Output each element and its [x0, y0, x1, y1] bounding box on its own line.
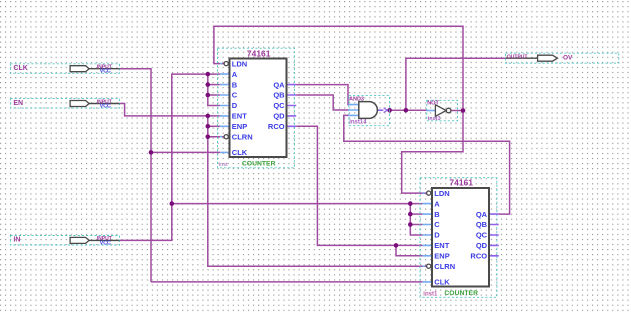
junction IN/B1 [206, 82, 211, 87]
wire RCO1 net: branch ENT2 to ENP2 [396, 245, 422, 255]
chip1 body [230, 59, 287, 158]
svg-text:B: B [232, 80, 238, 89]
wire AND output net: up to OUTPUT pin [406, 58, 506, 110]
input pin EN [10, 99, 119, 110]
wire IN net: chip2 data column A-D [410, 204, 422, 235]
counter U1: 74161 inst [218, 48, 297, 168]
svg-text:A: A [434, 199, 440, 208]
svg-text:OUTPUT: OUTPUT [507, 54, 528, 60]
svg-text:B: B [434, 210, 440, 219]
svg-text:D: D [232, 101, 238, 110]
svg-text:CLK: CLK [434, 278, 450, 287]
svg-text:CLK: CLK [13, 65, 27, 72]
counter U2: 74161 inst1 [420, 177, 499, 297]
svg-text:LDN: LDN [434, 189, 449, 198]
wire EN net: pin EN to chip1 ENT [120, 104, 220, 116]
junction IN/B2 [408, 212, 413, 217]
chip1 LDN bubble [224, 62, 228, 66]
svg-text:QB: QB [273, 91, 285, 100]
and gate AND3 inst14 [348, 96, 389, 126]
svg-text:QD: QD [273, 112, 285, 121]
wire CLK net: bottom run to chip2 CLK [151, 281, 422, 283]
svg-text:74161: 74161 [449, 177, 473, 187]
wire NOT output net: to LDN trunk [451, 110, 463, 112]
svg-text:RCO: RCO [268, 122, 285, 131]
svg-text:inst: inst [219, 162, 228, 168]
chip2 LDN bubble [427, 191, 431, 195]
wire CLK net: branch to chip1 CLK [151, 151, 220, 153]
wire RCO1 net: RCO1 down to chip2 ENT [296, 126, 422, 245]
chip2 body [432, 188, 489, 287]
svg-text:CLRN: CLRN [434, 262, 455, 271]
wire IN net: branch to B2 [410, 213, 422, 215]
svg-text:AND3: AND3 [349, 97, 364, 103]
junction IN/A2 [408, 201, 413, 206]
svg-text:QB: QB [476, 220, 488, 229]
input pin CLK [10, 64, 119, 75]
svg-text:C: C [434, 220, 440, 229]
output pin OV [506, 53, 619, 63]
junction IN trunk/A2 run [170, 201, 175, 206]
junction EN/ENT1 [206, 114, 211, 119]
svg-text:74161: 74161 [247, 48, 271, 58]
svg-text:INPUT: INPUT [97, 65, 112, 71]
svg-text:A: A [232, 70, 238, 79]
wire IN net: run to chip2 A [172, 203, 423, 205]
wire IN net: branch to B1 [208, 84, 220, 86]
svg-text:IN: IN [13, 237, 20, 244]
svg-text:QA: QA [273, 80, 285, 89]
junction NOT output/LDN trunk [461, 108, 466, 113]
junction IN/C2 [408, 222, 413, 227]
input pin IN [10, 236, 119, 247]
svg-text:ENT: ENT [434, 241, 449, 250]
svg-text:COUNTER: COUNTER [444, 290, 478, 297]
svg-text:QC: QC [476, 231, 488, 240]
junction IN/C1 [206, 93, 211, 98]
wire QA1 net: QA1 to AND input 1 [296, 85, 348, 105]
svg-text:ENT: ENT [232, 112, 247, 121]
svg-text:INPUT: INPUT [97, 99, 112, 105]
svg-text:D: D [434, 231, 440, 240]
svg-text:ENP: ENP [434, 252, 449, 261]
junction EN/CLRN1 [206, 134, 211, 139]
junction EN/ENP1 [206, 124, 211, 129]
wire IN net: branch to C1 [208, 94, 220, 96]
svg-text:INPUT: INPUT [97, 236, 112, 242]
svg-text:NOT: NOT [427, 101, 439, 107]
wire IN net: branch to C2 [410, 224, 422, 226]
svg-text:CLK: CLK [232, 148, 248, 157]
wire LDN net: LDN1 over the top to right trunk [214, 26, 463, 193]
wire QB1 net: QB1 to AND input 2 [296, 95, 348, 110]
svg-text:RCO: RCO [470, 252, 487, 261]
svg-text:LDN: LDN [232, 59, 247, 68]
junction AND output/OUTPUT branch [404, 108, 409, 113]
junction AND output [387, 108, 392, 113]
svg-text:OV: OV [563, 54, 573, 61]
svg-text:QC: QC [273, 101, 285, 110]
wire CLK net: pin CLK to vertical trunk [120, 69, 152, 282]
not gate NOT inst3 [427, 100, 458, 122]
svg-text:COUNTER: COUNTER [242, 160, 276, 167]
wire EN net: branch to CLRN1 [208, 136, 224, 138]
wire EN net: branch to ENP1 [208, 125, 220, 127]
wire IN net: chip1 data column A-D [208, 74, 220, 105]
wire AND output net: to NOT input [390, 109, 427, 111]
svg-text:inst1: inst1 [423, 291, 438, 297]
svg-text:EN: EN [13, 100, 23, 107]
svg-text:QA: QA [476, 210, 488, 219]
svg-text:CLRN: CLRN [232, 132, 253, 141]
svg-text:QD: QD [476, 241, 488, 250]
wire IN net: pin IN up to A-row [120, 74, 220, 240]
junction CLK/chip1 [149, 150, 154, 155]
chip1 CLRN bubble [224, 135, 228, 139]
wire EN net: vertical trunk to CLRN2 [208, 116, 427, 266]
stubs right chip2 [489, 214, 499, 256]
stubs left chip1 [220, 64, 230, 153]
svg-text:inst14: inst14 [349, 119, 367, 125]
chip2 CLRN bubble [427, 264, 431, 268]
wire QA2 net: QA2 around to AND input 3 [344, 115, 510, 214]
junction IN/A1 [206, 72, 211, 77]
svg-text:inst3: inst3 [428, 116, 441, 122]
stubs right chip1 [287, 85, 297, 127]
stubs left chip2 [422, 193, 432, 282]
junction RCO1/ENT2 [394, 243, 399, 248]
svg-text:C: C [232, 91, 238, 100]
svg-text:ENP: ENP [232, 122, 247, 131]
